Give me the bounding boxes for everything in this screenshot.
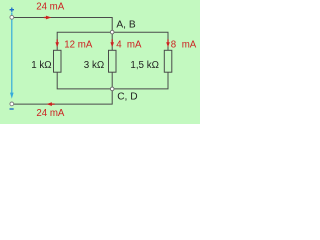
- wire: top bus connecting resistor branches: [57, 32, 168, 50]
- current arrow 12 mA (branch 1, pointing down): [55, 39, 59, 47]
- svg-text:C, D: C, D: [117, 92, 137, 103]
- terminal + (circle): [10, 15, 14, 19]
- svg-text:8 mA: 8 mA: [171, 39, 197, 50]
- plus sign: [10, 8, 14, 12]
- wire: branch 2 vertical (bottom): [111, 72, 113, 89]
- current arrow 8 mA (branch 3, pointing down): [166, 39, 170, 47]
- svg-text:3 kΩ: 3 kΩ: [84, 60, 104, 71]
- svg-text:1,5 kΩ: 1,5 kΩ: [130, 60, 159, 71]
- resistor R1 1 kOhm: [54, 50, 62, 72]
- resistor R3 1,5 kOhm: [164, 50, 172, 72]
- wire: source lead (cyan) from + down to - terminal: [10, 12, 14, 98]
- svg-text:A, B: A, B: [116, 20, 135, 31]
- current arrow 4 mA (branch 2, pointing down): [110, 39, 114, 47]
- wire: top feed from + terminal to node A,B: [14, 18, 112, 33]
- current arrow 24 mA (bottom wire, pointing left): [46, 102, 54, 106]
- node A,B junction: [110, 30, 114, 34]
- minus sign: [10, 108, 14, 110]
- current arrow 24 mA (top wire, pointing right): [44, 16, 52, 20]
- resistor R2 3 kOhm: [109, 50, 117, 72]
- wire: branch 2 vertical (top): [111, 32, 113, 50]
- svg-text:1 kΩ: 1 kΩ: [31, 60, 51, 71]
- wire: bottom return from node C,D to - terminal: [14, 89, 112, 104]
- terminal - (circle): [10, 102, 14, 106]
- wire: bottom bus connecting resistor branches: [57, 72, 168, 89]
- node C,D junction: [110, 87, 114, 91]
- svg-text:4 mA: 4 mA: [116, 39, 142, 50]
- svg-text:24 mA: 24 mA: [36, 1, 65, 12]
- svg-text:12 mA: 12 mA: [64, 39, 93, 50]
- svg-text:24 mA: 24 mA: [36, 108, 65, 119]
